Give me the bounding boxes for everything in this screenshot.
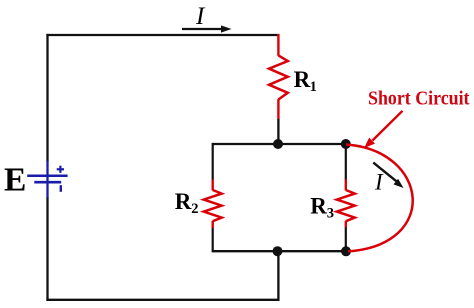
svg-text:3: 3 — [327, 205, 334, 221]
wire: box left lower lead — [212, 228, 214, 252]
wire: box right lower lead — [345, 227, 347, 252]
svg-text:R: R — [294, 67, 311, 92]
battery minus tick — [60, 185, 62, 192]
wire: bottom horizontal — [46, 299, 279, 301]
label R3 — [310, 194, 334, 222]
resistor R3 (red zigzag) with red leads — [337, 179, 355, 227]
svg-text:1: 1 — [310, 79, 317, 95]
svg-text:I: I — [374, 169, 384, 194]
label R2 — [175, 189, 199, 217]
svg-text:E: E — [4, 161, 26, 198]
arrow: current along short circuit — [373, 163, 403, 188]
node: top-right junction — [341, 139, 351, 149]
arrow: top current direction — [182, 25, 232, 32]
wire: parallel box top rail — [213, 143, 346, 145]
label R1 — [294, 67, 317, 95]
battery plus sign — [57, 166, 64, 173]
wire: box right upper lead — [345, 143, 347, 180]
wire: left vertical upper (battery branch) — [46, 34, 48, 162]
svg-text:Short Circuit: Short Circuit — [368, 88, 470, 110]
wire: bottom-center stub — [277, 250, 279, 300]
resistor R2 (red zigzag) with red leads — [204, 180, 222, 229]
wire: parallel box bottom rail — [213, 250, 346, 252]
node: bottom-right junction — [341, 246, 351, 256]
wire: top horizontal — [46, 34, 279, 36]
wire: short-circuit red curve — [346, 145, 413, 252]
svg-text:R: R — [175, 189, 192, 214]
svg-text:R: R — [310, 194, 327, 219]
node: top-center junction — [273, 139, 283, 149]
wire: R1 lower black lead — [277, 119, 279, 145]
wire: left vertical lower — [46, 197, 48, 301]
resistor R1 (red zigzag) with red leads — [269, 34, 288, 120]
svg-text:2: 2 — [191, 201, 198, 217]
svg-text:I: I — [195, 3, 206, 30]
battery E (blue symbol) — [27, 161, 67, 199]
wire: box left upper lead — [212, 143, 214, 180]
arrow: red annotation pointer — [364, 111, 403, 149]
node: bottom-center junction — [273, 246, 283, 256]
